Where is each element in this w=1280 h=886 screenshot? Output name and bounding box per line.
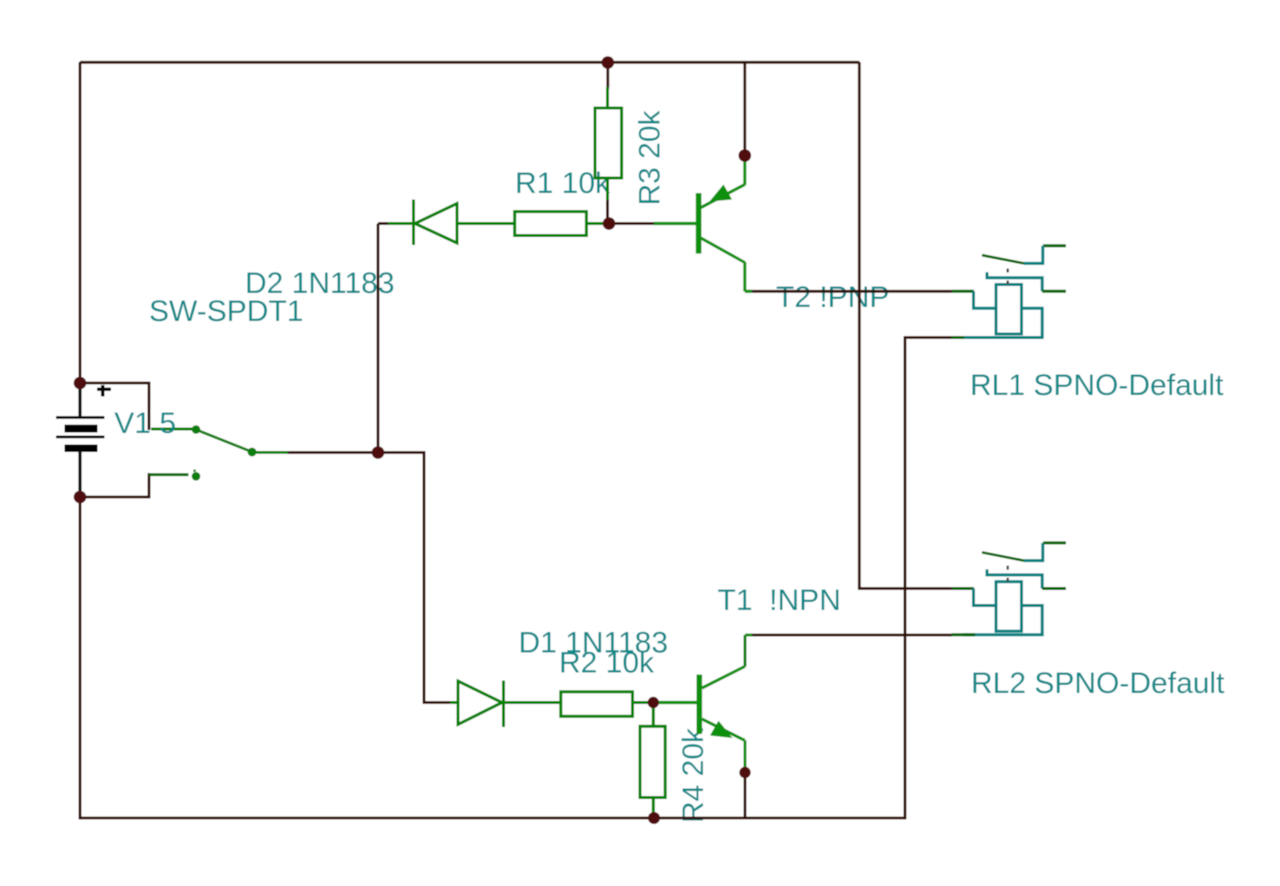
svg-text:T1 !NPN: T1 !NPN — [718, 584, 841, 617]
node switch output — [372, 446, 385, 459]
wire switch node vertical — [377, 224, 380, 453]
label R2 10k — [559, 647, 655, 680]
diode D1 — [450, 681, 561, 728]
relay RL1 — [952, 246, 1067, 338]
wire battery minus link — [80, 473, 149, 497]
wire T1 collector to RL2 return — [745, 634, 952, 637]
svg-text:V1 5: V1 5 — [114, 407, 176, 440]
switch SW-SPDT1 — [149, 425, 288, 480]
transistor T1 — [659, 635, 752, 770]
battery V1 — [56, 385, 111, 494]
diode D2 — [388, 200, 515, 246]
wire R2 node to T1 base — [653, 701, 659, 704]
svg-text:R4 20k: R4 20k — [677, 727, 710, 823]
relay RL2 — [952, 543, 1067, 635]
label SW-SPDT1 — [149, 295, 303, 328]
label R1 10k — [515, 167, 611, 200]
resistor R3 — [595, 87, 622, 200]
node R1 R3 base — [603, 217, 616, 230]
resistor R1 — [515, 212, 607, 236]
label R4 20k (rotated) — [677, 727, 710, 823]
wire T2 collector to RL1 — [745, 290, 952, 293]
svg-text:D2 1N1183: D2 1N1183 — [245, 267, 395, 300]
wire left rail upper — [79, 62, 82, 383]
wire right top rail down to RL2 — [859, 62, 952, 589]
node R2 R4 base — [648, 697, 659, 708]
node T1 emitter — [739, 767, 750, 778]
node T2 emitter — [739, 149, 752, 162]
svg-text:RL1 SPNO-Default: RL1 SPNO-Default — [970, 369, 1224, 402]
wire top rail to R3 top lead — [606, 64, 609, 89]
wire left rail lower — [80, 497, 905, 820]
node battery minus — [74, 491, 87, 504]
label D1 1N1183 — [519, 627, 669, 660]
node top rail R3 — [602, 56, 615, 69]
label V1 5 — [114, 407, 176, 440]
label R3 20k (rotated) — [634, 109, 667, 205]
wire R3 bottom to node — [606, 199, 609, 224]
wire top rail — [80, 61, 859, 64]
node R4 bottom rail — [648, 812, 660, 824]
label D2 1N1183 — [245, 267, 395, 300]
svg-text:T2 !PNP: T2 !PNP — [776, 281, 889, 314]
resistor R2 — [561, 692, 652, 717]
wire R1 to base node — [609, 222, 654, 225]
label RL2 SPNO-Default — [971, 667, 1225, 700]
svg-text:R2 10k: R2 10k — [559, 647, 655, 680]
svg-text:R3 20k: R3 20k — [634, 109, 667, 205]
label RL1 SPNO-Default — [970, 369, 1224, 402]
wire D2 corner stub — [378, 222, 390, 225]
resistor R4 — [640, 704, 665, 816]
wire T2 emitter to top rail — [743, 63, 746, 152]
svg-text:RL2 SPNO-Default: RL2 SPNO-Default — [971, 667, 1225, 700]
wire T1 emitter to bottom rail — [744, 774, 747, 818]
transistor T2 — [654, 158, 752, 291]
svg-text:R1 10k: R1 10k — [515, 167, 611, 200]
wire RL1 return down right rail — [905, 338, 952, 820]
node battery plus — [74, 377, 87, 390]
label T2 !PNP — [776, 281, 889, 314]
label T1 !NPN — [718, 584, 841, 617]
wire battery plus link — [80, 383, 149, 430]
wire switch node horizontal — [287, 453, 452, 703]
